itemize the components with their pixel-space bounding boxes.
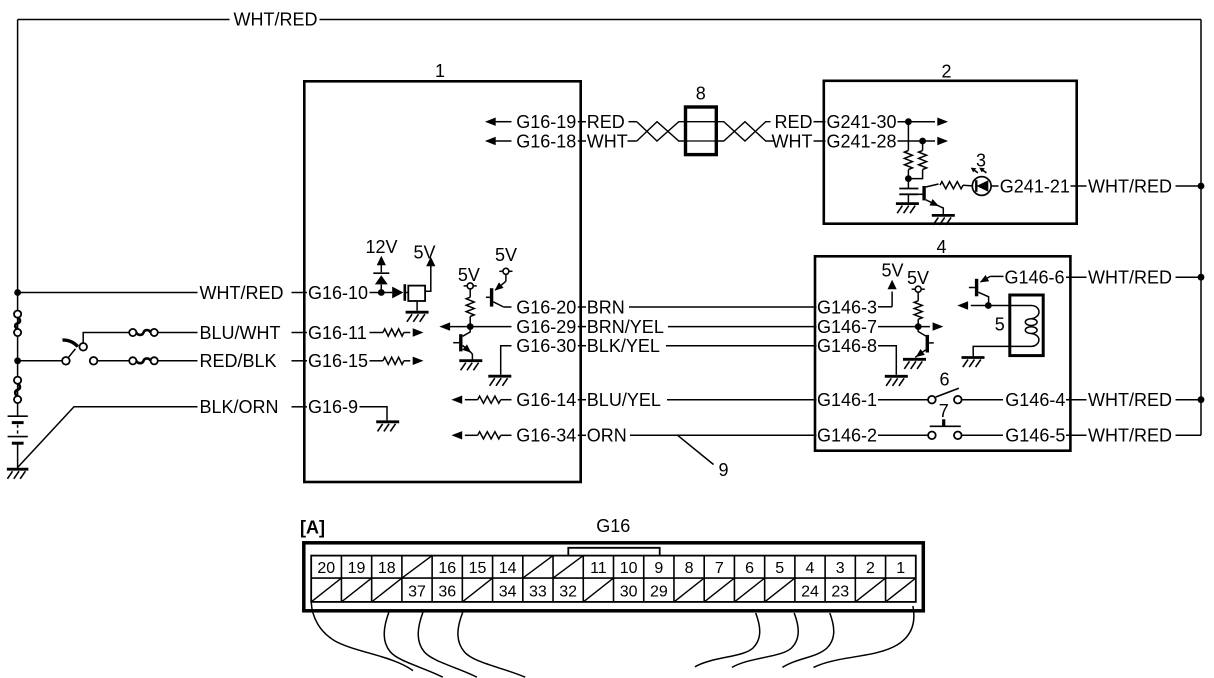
ground (G146-8) bbox=[885, 376, 908, 386]
ignition switch SW1 blade bbox=[68, 349, 76, 358]
battery BAT bbox=[8, 416, 28, 469]
svg-text:G16-18: G16-18 bbox=[516, 131, 576, 151]
node junction G241-30 bbox=[905, 118, 912, 125]
svg-text:19: 19 bbox=[348, 560, 366, 577]
label 5 (callout) bbox=[995, 314, 1005, 334]
wire G146-7 arrow bbox=[878, 322, 943, 330]
wire G241-21 WHT/RED bbox=[1071, 185, 1087, 187]
svg-text:7: 7 bbox=[715, 560, 724, 577]
svg-text:8: 8 bbox=[685, 560, 694, 577]
svg-text:7: 7 bbox=[939, 401, 949, 421]
wire to right bus (G241-21) bbox=[1176, 185, 1202, 187]
wire G16-10 to diode bbox=[370, 292, 393, 294]
resistor R3 (pull-up) bbox=[466, 297, 474, 326]
label 2 (callout) bbox=[941, 61, 951, 81]
svg-text:G16-9: G16-9 bbox=[308, 397, 358, 417]
ground (G16-30) bbox=[488, 376, 511, 386]
diode D2 (series) bbox=[392, 284, 409, 301]
svg-text:11: 11 bbox=[590, 560, 607, 577]
wire BLK/ORN diagonal from ground bbox=[18, 407, 307, 467]
svg-text:G241-30: G241-30 bbox=[827, 112, 897, 132]
wire to fuse F3 bbox=[97, 360, 129, 362]
svg-text:G146-8: G146-8 bbox=[817, 336, 877, 356]
svg-text:3: 3 bbox=[836, 560, 845, 577]
svg-text:5: 5 bbox=[775, 560, 784, 577]
label WHT/RED (G146-6) bbox=[1088, 268, 1172, 288]
pin G16-18 output arrow bbox=[485, 137, 512, 145]
pin label G16-10 bbox=[308, 283, 368, 303]
label BRN/YEL bbox=[587, 317, 664, 337]
zener diode D1 bbox=[373, 273, 389, 292]
block 4 outline bbox=[815, 256, 1070, 450]
pin label G146-8 bbox=[817, 336, 877, 356]
svg-text:G16-20: G16-20 bbox=[516, 297, 576, 317]
switch 6 contact A bbox=[928, 396, 936, 404]
label BLK/ORN bbox=[200, 397, 279, 417]
label 9 (callout) bbox=[718, 460, 728, 480]
pin label G146-2 bbox=[817, 426, 877, 446]
wire switch 7 to G146-5 bbox=[962, 434, 1004, 436]
ground (regulator) bbox=[406, 312, 429, 322]
svg-text:[A]: [A] bbox=[300, 517, 325, 537]
transistor Q5 (PNP, G146-6) bbox=[969, 275, 1004, 305]
svg-text:2: 2 bbox=[941, 61, 951, 81]
svg-text:G146-4: G146-4 bbox=[1005, 390, 1065, 410]
svg-text:5V: 5V bbox=[881, 261, 903, 281]
output arrow (coil row) bbox=[957, 301, 968, 309]
fuse F2 (BLU/WHT) bbox=[129, 329, 158, 336]
svg-text:G16-11: G16-11 bbox=[308, 323, 367, 343]
node junction R6/R7 bbox=[905, 175, 912, 182]
5V supply arrow (regulator) bbox=[426, 257, 435, 268]
wire coil to ground bbox=[973, 346, 1031, 356]
connector 8 box bbox=[686, 107, 717, 155]
ignition switch SW1 contact (ign) bbox=[79, 343, 87, 351]
wire G241-30 arrow bbox=[898, 118, 949, 126]
pin label G16-19 bbox=[516, 112, 576, 132]
connector G16 outer shell bbox=[304, 543, 924, 611]
harness wire 6 bbox=[732, 613, 798, 667]
capacitor C1 bbox=[899, 179, 918, 203]
label [A] bbox=[300, 517, 325, 537]
wire to right bus (G146-4) bbox=[1176, 399, 1202, 401]
svg-text:32: 32 bbox=[559, 584, 577, 601]
svg-text:5V: 5V bbox=[495, 245, 517, 265]
wire right vertical WHT/RED bus bbox=[1200, 20, 1202, 436]
ground (battery) bbox=[7, 469, 29, 479]
svg-text:20: 20 bbox=[317, 560, 335, 577]
pin label G16-20 bbox=[516, 297, 576, 317]
node junction G16-10 bbox=[378, 289, 385, 296]
wire BLU/YEL bbox=[578, 399, 817, 401]
pin label G16-18 bbox=[516, 131, 576, 151]
label 12V bbox=[365, 237, 397, 257]
svg-text:1: 1 bbox=[896, 560, 905, 577]
wire RED (left) bbox=[578, 121, 637, 123]
pin G16-19 output arrow bbox=[485, 118, 512, 126]
svg-text:G16-19: G16-19 bbox=[516, 112, 576, 132]
svg-text:BLU/WHT: BLU/WHT bbox=[200, 323, 281, 343]
harness wire 2 bbox=[384, 612, 443, 677]
pin label G146-4 bbox=[1005, 390, 1065, 410]
relay box 5 outline bbox=[1010, 295, 1043, 356]
node junction coil row bbox=[985, 302, 992, 309]
node junction G146-7 bbox=[915, 323, 922, 330]
switch contact (acc) bbox=[90, 357, 98, 365]
wire LED to G241-21 bbox=[991, 185, 998, 187]
svg-text:G16-34: G16-34 bbox=[516, 426, 576, 446]
pin label G16-30 bbox=[516, 336, 576, 356]
wire BRN/YEL bbox=[578, 326, 817, 328]
harness wire 7 bbox=[782, 613, 833, 667]
wire BRN bbox=[578, 306, 817, 308]
wire BLK/YEL bbox=[578, 345, 817, 347]
ground (Q1) bbox=[459, 361, 482, 371]
pin label G146-1 bbox=[817, 390, 877, 410]
wires through connector 8 bbox=[684, 122, 718, 141]
harness wire 5 bbox=[695, 613, 760, 667]
label 5V (G16-20) bbox=[495, 245, 517, 265]
wire WHT into box 2 bbox=[814, 140, 826, 142]
wire switch to BLU/WHT bbox=[83, 333, 129, 344]
svg-text:BLU/YEL: BLU/YEL bbox=[587, 390, 661, 410]
svg-text:BLK/ORN: BLK/ORN bbox=[200, 397, 279, 417]
svg-text:BLK/YEL: BLK/YEL bbox=[587, 336, 660, 356]
svg-text:5V: 5V bbox=[458, 265, 480, 285]
svg-text:G241-28: G241-28 bbox=[827, 131, 897, 151]
block 2 outline bbox=[824, 81, 1077, 224]
label WHT (left) bbox=[587, 131, 628, 151]
svg-text:34: 34 bbox=[499, 584, 517, 601]
output arrow (G16-34) bbox=[451, 431, 462, 439]
twisted pair (left of connector 8) bbox=[637, 122, 684, 141]
pin label G241-21 bbox=[1000, 176, 1070, 196]
svg-text:G16-29: G16-29 bbox=[516, 317, 576, 337]
wire G16-30 to ground bbox=[501, 346, 512, 375]
connector G16 pin grid bbox=[311, 556, 916, 602]
regulator U1 (square) bbox=[408, 286, 425, 301]
label G16 (connector) bbox=[596, 516, 630, 536]
pin label G16-11 bbox=[308, 323, 367, 343]
svg-text:WHT/RED: WHT/RED bbox=[234, 10, 318, 30]
LED 3 bbox=[972, 177, 991, 196]
svg-text:G16-10: G16-10 bbox=[308, 283, 368, 303]
svg-text:WHT: WHT bbox=[772, 131, 813, 151]
switch 6 lever bbox=[936, 388, 959, 397]
svg-text:BRN: BRN bbox=[587, 297, 625, 317]
svg-text:4: 4 bbox=[806, 560, 815, 577]
svg-text:RED: RED bbox=[774, 112, 812, 132]
svg-text:2: 2 bbox=[866, 560, 875, 577]
label 5V (G146-3) bbox=[881, 261, 903, 281]
wire left vertical battery bus bbox=[17, 20, 19, 417]
svg-text:5V: 5V bbox=[907, 268, 929, 288]
resistor R2 (G16-15) bbox=[370, 357, 411, 364]
ground (Q4) bbox=[903, 359, 926, 369]
svg-text:G146-1: G146-1 bbox=[817, 390, 877, 410]
transistor Q2 (PNP) bbox=[486, 281, 506, 307]
svg-text:WHT/RED: WHT/RED bbox=[200, 283, 284, 303]
label WHT (right) bbox=[772, 131, 813, 151]
svg-text:16: 16 bbox=[438, 560, 456, 577]
relay coil L1 bbox=[1025, 306, 1039, 347]
connector G16 pin numbers and blanked cavities bbox=[311, 556, 916, 602]
pin label G16-9 bbox=[308, 397, 358, 417]
node junction right bus 3 bbox=[1198, 396, 1205, 403]
label WHT/RED (G16-10 wire) bbox=[200, 283, 284, 303]
svg-text:15: 15 bbox=[469, 560, 487, 577]
svg-text:WHT/RED: WHT/RED bbox=[1088, 390, 1172, 410]
svg-text:RED/BLK: RED/BLK bbox=[200, 351, 277, 371]
ground (G16-9) bbox=[376, 422, 399, 432]
svg-text:14: 14 bbox=[499, 560, 517, 577]
transistor Q3 bbox=[918, 184, 943, 214]
pin label G16-29 bbox=[516, 317, 576, 337]
wire G16-9 to ground bbox=[360, 407, 388, 421]
wire G146-6 WHT/RED bbox=[1066, 276, 1087, 278]
wire G16-29 row bbox=[450, 326, 512, 328]
pin label G16-14 bbox=[516, 390, 576, 410]
svg-text:G16: G16 bbox=[596, 516, 630, 536]
svg-text:5: 5 bbox=[995, 314, 1005, 334]
ground (Q3) bbox=[932, 215, 955, 225]
label WHT/RED (top wire) bbox=[234, 10, 318, 30]
wire G146-1 to switch bbox=[878, 399, 928, 401]
svg-text:G16-14: G16-14 bbox=[516, 390, 576, 410]
pin label G241-28 bbox=[827, 131, 897, 151]
ignition switch SW1 lever bbox=[63, 340, 78, 347]
node junction G16-29 bbox=[467, 323, 474, 330]
wire G146-2 to switch bbox=[878, 434, 928, 436]
svg-text:9: 9 bbox=[718, 460, 728, 480]
ground (coil) bbox=[962, 358, 985, 368]
svg-text:6: 6 bbox=[939, 369, 949, 389]
label RED (right) bbox=[774, 112, 812, 132]
connector G16 key tab bbox=[568, 548, 659, 556]
transistor Q4 bbox=[915, 327, 934, 358]
pin label G146-6 bbox=[1005, 268, 1065, 288]
svg-text:1: 1 bbox=[435, 61, 445, 81]
wire G146-8 to ground bbox=[878, 346, 896, 375]
svg-text:12V: 12V bbox=[365, 237, 397, 257]
svg-text:18: 18 bbox=[378, 560, 396, 577]
ignition switch SW1 contact (common) bbox=[62, 357, 70, 365]
5V supply arrow (G146-3) bbox=[888, 280, 897, 307]
wire BLU/WHT to G16-11 bbox=[158, 332, 307, 334]
svg-text:WHT: WHT bbox=[587, 131, 628, 151]
wire RED/BLK to G16-15 bbox=[158, 360, 307, 362]
svg-text:G146-5: G146-5 bbox=[1005, 426, 1065, 446]
svg-text:WHT/RED: WHT/RED bbox=[1088, 268, 1172, 288]
svg-text:3: 3 bbox=[976, 150, 986, 170]
label 6 (callout) bbox=[939, 369, 949, 389]
resistor R9 (box4 pull-up) bbox=[914, 301, 922, 327]
wire RED into box 2 bbox=[814, 121, 826, 123]
resistor R8 (LED) bbox=[940, 182, 972, 189]
switch 7 plunger bbox=[930, 419, 961, 426]
harness wire 1 bbox=[311, 602, 413, 671]
harness wire 4 bbox=[458, 612, 525, 677]
pin label G146-3 bbox=[817, 297, 877, 317]
pin label G241-30 bbox=[827, 112, 897, 132]
svg-text:29: 29 bbox=[650, 584, 668, 601]
resistor R6 bbox=[904, 122, 912, 179]
wire switch 6 to G146-4 bbox=[962, 399, 1004, 401]
node junction RED/BLK tap bbox=[14, 357, 21, 364]
fuse F1 (main) bbox=[14, 311, 21, 337]
node junction right bus 2 bbox=[1198, 274, 1205, 281]
svg-text:BRN/YEL: BRN/YEL bbox=[587, 317, 664, 337]
pin label G146-7 bbox=[817, 317, 877, 337]
svg-text:G146-2: G146-2 bbox=[817, 426, 877, 446]
fuse F4 (lower) bbox=[14, 377, 21, 404]
wire ORN bbox=[578, 434, 817, 436]
label 5V (regulator) bbox=[413, 243, 435, 263]
5V supply circle (G16-20) bbox=[499, 268, 512, 281]
wire regulator to 5V arrow bbox=[425, 267, 431, 292]
harness wire 8 bbox=[814, 606, 914, 667]
block 1 PCM outline bbox=[304, 81, 580, 482]
5V supply circle (box4) bbox=[912, 286, 925, 301]
label BLK/YEL bbox=[587, 336, 660, 356]
pin label G16-15 bbox=[308, 351, 368, 371]
output arrow (G16-14) bbox=[451, 396, 462, 404]
wire G146-4 WHT/RED bbox=[1066, 399, 1087, 401]
wire to right bus (G146-5) bbox=[1176, 434, 1202, 436]
wire WHT/RED to G16-10 bbox=[18, 292, 307, 294]
svg-text:37: 37 bbox=[408, 584, 426, 601]
label 7 (callout) bbox=[939, 401, 949, 421]
wire regulator to ground bbox=[416, 301, 418, 311]
label BRN bbox=[587, 297, 625, 317]
svg-text:8: 8 bbox=[696, 84, 706, 104]
svg-text:G146-6: G146-6 bbox=[1005, 268, 1065, 288]
svg-text:G16-30: G16-30 bbox=[516, 336, 576, 356]
wire coil row bbox=[971, 305, 1032, 307]
svg-text:ORN: ORN bbox=[587, 426, 627, 446]
wire Q2 to G16-20 bbox=[504, 306, 512, 308]
svg-text:G146-3: G146-3 bbox=[817, 297, 877, 317]
label 8 (callout) bbox=[696, 84, 706, 104]
12V supply arrow bbox=[377, 256, 386, 272]
switch 7 contact A bbox=[928, 432, 936, 440]
node junction G241-28 bbox=[919, 138, 926, 145]
wire WHT/RED battery feed (top) bbox=[18, 19, 1201, 21]
fuse F3 (RED/BLK) bbox=[129, 357, 158, 364]
svg-text:9: 9 bbox=[654, 560, 663, 577]
svg-text:5V: 5V bbox=[413, 243, 435, 263]
callout leader 9 bbox=[677, 435, 714, 465]
wire WHT (left) bbox=[578, 140, 637, 142]
label 5V (pull-up, box4) bbox=[907, 268, 929, 288]
5V supply circle (pull-up) bbox=[464, 283, 477, 297]
switch 6 contact B bbox=[954, 396, 962, 404]
svg-text:10: 10 bbox=[620, 560, 638, 577]
svg-text:G241-21: G241-21 bbox=[1000, 176, 1070, 196]
label WHT/RED (G146-4) bbox=[1088, 390, 1172, 410]
label WHT/RED (G241-21) bbox=[1088, 176, 1172, 196]
resistor R5 (G16-34) bbox=[465, 432, 512, 439]
label 4 (callout) bbox=[936, 237, 946, 257]
resistor R4 (G16-14) bbox=[465, 396, 512, 403]
transistor Q1 bbox=[453, 327, 472, 360]
svg-text:WHT/RED: WHT/RED bbox=[1088, 426, 1172, 446]
wire to ignition switch bbox=[18, 360, 63, 362]
svg-text:4: 4 bbox=[936, 237, 946, 257]
label WHT/RED (G146-5) bbox=[1088, 426, 1172, 446]
svg-text:24: 24 bbox=[801, 584, 819, 601]
label 5V (pull-up) bbox=[458, 265, 480, 285]
resistor R7 bbox=[908, 141, 926, 179]
label 3 (callout) bbox=[976, 150, 986, 170]
svg-text:G16-15: G16-15 bbox=[308, 351, 368, 371]
resistor R1 (G16-11) bbox=[370, 329, 411, 336]
pin label G16-34 bbox=[516, 426, 576, 446]
input arrow (G16-11) bbox=[413, 328, 424, 336]
label 1 (callout) bbox=[435, 61, 445, 81]
ground (C1) bbox=[896, 204, 919, 214]
input arrow (G16-15) bbox=[413, 357, 424, 365]
output arrow (G16-29) bbox=[439, 322, 450, 330]
svg-text:36: 36 bbox=[438, 584, 456, 601]
label BLU/YEL bbox=[587, 390, 661, 410]
svg-text:6: 6 bbox=[745, 560, 754, 577]
wire G241-28 arrow bbox=[898, 137, 949, 145]
wire to right bus (G146-6) bbox=[1176, 276, 1202, 278]
svg-text:23: 23 bbox=[831, 584, 849, 601]
node junction WHT/RED tap bbox=[14, 289, 21, 296]
node junction right bus 1 bbox=[1198, 183, 1205, 190]
switch 7 contact B bbox=[954, 432, 962, 440]
wire G146-3 to 5V bbox=[878, 306, 892, 308]
twisted pair (right of connector 8) bbox=[718, 122, 775, 141]
svg-text:30: 30 bbox=[620, 584, 638, 601]
svg-text:G146-7: G146-7 bbox=[817, 317, 877, 337]
harness wire 3 bbox=[418, 612, 477, 677]
label RED/BLK bbox=[200, 351, 277, 371]
label RED (left) bbox=[587, 112, 625, 132]
svg-text:WHT/RED: WHT/RED bbox=[1088, 176, 1172, 196]
svg-text:RED: RED bbox=[587, 112, 625, 132]
wire G146-5 WHT/RED bbox=[1066, 434, 1087, 436]
pin label G146-5 bbox=[1005, 426, 1065, 446]
label ORN bbox=[587, 426, 627, 446]
LED emission arrows bbox=[971, 168, 987, 173]
label BLU/WHT bbox=[200, 323, 281, 343]
svg-text:33: 33 bbox=[529, 584, 547, 601]
